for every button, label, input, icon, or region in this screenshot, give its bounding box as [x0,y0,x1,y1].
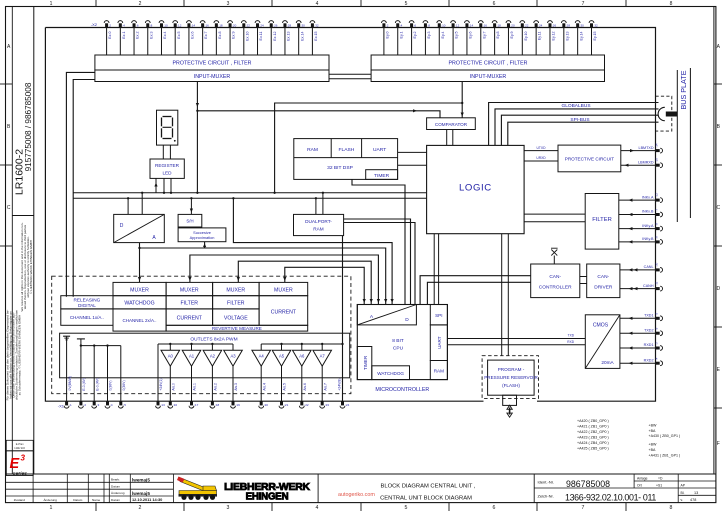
wire muxer4 to cpu (bundle line 4) [238,261,371,304]
pin -X1:24 [340,406,345,408]
svg-text:+BA: +BA [649,448,656,452]
svg-text::26: :26 [552,23,557,27]
svg-text:Ident.-Nr.: Ident.-Nr. [538,479,554,484]
svg-text:C: C [7,205,11,211]
wire LBMRXD [621,164,656,166]
seven segment display [157,110,178,145]
svg-text::22: :22 [524,23,529,27]
svg-text:Ex.1: Ex.1 [122,32,126,39]
wire rail to pin X1:5 [120,346,122,402]
svg-text:LWE 932: LWE 932 [14,446,25,450]
svg-text:GLOBALBUS: GLOBALBUS [561,103,590,109]
svg-text:Ex.15: Ex.15 [314,32,318,41]
wire bus to sample-hold [190,198,192,214]
wire uart TXD to cmos [447,338,585,340]
wire muxer3 to cpu (bundle line 3) [190,255,379,305]
svg-text::16: :16 [173,403,178,407]
svg-text:Ey.9: Ey.9 [510,32,514,39]
pin -X2:4 [118,21,123,23]
svg-text:LBMRXD: LBMRXD [638,160,654,164]
logic block U2 [427,145,524,233]
pin -X3:6 [409,21,414,23]
svg-text::3: :3 [97,403,100,407]
svg-text:D: D [405,317,409,323]
svg-text:MUXER: MUXER [274,287,293,293]
svg-text::24: :24 [260,23,265,27]
svg-text:FILTER: FILTER [592,217,612,223]
svg-text:EHINGEN: EHINGEN [246,491,289,502]
svg-text:SPI-BUS: SPI-BUS [570,117,589,123]
svg-text:=D: =D [658,476,663,480]
wire logic down to program flash (2) [507,234,509,356]
wire INKy.B [619,241,656,243]
wire TXD1 [620,317,656,319]
globalbus wire 2 [495,109,659,145]
wire A3 to pin [232,366,234,401]
svg-text:12.10.2011 14:30: 12.10.2011 14:30 [132,497,162,502]
pin -X1:17 [189,406,194,408]
wire dualport to cpu (2) [344,223,415,305]
bus plate bar [676,70,678,222]
svg-text:RELEASING: RELEASING [73,298,100,303]
wire rail down to pin X1:13 [157,344,159,401]
wires can-controller to can-driver [580,276,587,278]
svg-text:Approximation: Approximation [190,235,215,240]
filter box (incremental inputs) [585,194,619,250]
svg-text:2: 2 [139,505,142,511]
wire A2 to pin [211,366,213,401]
svg-text:+A423 ( ZB3_GP0 ): +A423 ( ZB3_GP0 ) [577,435,609,439]
svg-text:TIMER: TIMER [363,355,368,370]
svg-text:series: series [13,471,27,477]
svg-text:+A420 ( ZB0_GP0 ): +A420 ( ZB0_GP0 ) [577,419,609,423]
svg-text:MICROCONTROLLER: MICROCONTROLLER [375,387,429,393]
spi-bus wire 2 [508,122,659,145]
svg-text:INKy.B: INKy.B [642,237,654,241]
svg-text:20mA: 20mA [601,360,614,365]
svg-text:(FLASH): (FLASH) [502,383,520,388]
svg-text:PRESSURE RESERVOIR: PRESSURE RESERVOIR [484,375,538,380]
svg-text:Ey.10: Ey.10 [524,32,528,41]
pin -X3:20 [506,21,511,23]
svg-text::20: :20 [264,403,269,407]
svg-text:+A430 ( ZB0_GP1 ): +A430 ( ZB0_GP1 ) [649,434,681,438]
svg-text:CENTRAL UNIT BLOCK DIAGRAM: CENTRAL UNIT BLOCK DIAGRAM [380,495,472,501]
svg-text:32 BIT DSP: 32 BIT DSP [327,165,353,171]
svg-text:S/H: S/H [186,219,193,224]
pin -X2:18 [214,21,219,23]
wire D/A output down into muxer channel 2 [139,243,141,283]
muxer col2 [113,282,166,295]
pin -X2:32 [310,21,315,23]
svg-text:Ex.3: Ex.3 [149,32,153,39]
svg-text::5: :5 [123,403,126,407]
pin -X2:26 [269,21,274,23]
pin -X2:6 [132,21,137,23]
cmos 20mA driver [585,315,620,369]
microcontroller block [357,305,447,380]
svg-text::19: :19 [236,403,241,407]
svg-text:4: 4 [316,1,319,7]
svg-text:A6: A6 [299,354,305,359]
svg-text:Ex.0: Ex.0 [108,32,112,39]
svg-text:Ey.5: Ey.5 [455,32,459,39]
svg-text:Ey.15: Ey.15 [593,32,597,41]
register led box [150,159,184,178]
svg-text::2: :2 [109,23,112,27]
pin -X2:22 [241,21,246,23]
svg-text:-X1: -X1 [58,404,65,409]
svg-text:4: 4 [316,505,319,511]
pin -X1:21 [279,406,284,408]
svg-text::23: :23 [325,403,330,407]
pin -X1:13 [156,406,161,408]
wire LBMTXD [621,150,656,152]
svg-text::26: :26 [273,23,278,27]
wire muxer5 to cpu (bundle line 5) [285,267,364,304]
wires dsp to logic [398,151,427,153]
wires register to data bus [155,178,157,192]
svg-text::6: :6 [136,23,139,27]
svg-text:D: D [120,223,124,229]
wire logic URXD [524,160,558,162]
outlet rail A0-A3 [158,343,233,345]
svg-text::20: :20 [232,23,237,27]
svg-text:FILTER: FILTER [227,301,245,307]
svg-text:A7: A7 [320,354,326,359]
pin TXD2 [656,332,660,335]
output driver A4 [260,344,262,350]
svg-text:+BW: +BW [649,443,657,447]
svg-text:Änderung: Änderung [111,491,125,495]
globalbus wire 1 [489,103,659,146]
svg-text:INPUT-MUXER: INPUT-MUXER [194,74,231,80]
pin -X3:10 [437,21,442,23]
cpu A/D converter sub-box [357,305,416,325]
data bus line 1 [73,192,426,194]
pin RXD1 [656,347,660,350]
svg-text:© LIEBHERR-WERK EHINGEN GMBH: © LIEBHERR-WERK EHINGEN GMBH [29,240,33,294]
svg-text::13: :13 [161,403,166,407]
pin CANL [656,268,660,271]
frame column ticks bottom [95,503,97,511]
svg-text:lwemaj5: lwemaj5 [132,491,150,496]
svg-text:Zustand: Zustand [14,498,25,502]
output driver A3 [232,344,234,350]
svg-text::22: :22 [246,23,251,27]
svg-text:-X2: -X2 [91,22,98,27]
pin TXD1 [656,317,660,320]
pin -X2:30 [296,21,301,23]
svg-text:v.: v. [681,498,683,502]
pin -X3:32 [589,21,594,23]
svg-text::4: :4 [110,403,113,407]
svg-text:INKx.A: INKx.A [642,195,654,199]
svg-text::24: :24 [345,403,350,407]
revertive measure bar [166,325,308,331]
can termination symbol [553,256,555,265]
svg-text:Datum: Datum [111,485,121,489]
pin -X3:14 [465,21,470,23]
svg-text:5: 5 [405,1,408,7]
svg-text:Ex.11: Ex.11 [259,32,263,41]
pin -X1:1 [64,406,69,408]
svg-text:A0: A0 [168,354,174,359]
pin INKy.B [656,240,660,243]
pin LBMTXD [656,149,660,152]
svg-text:Änderung: Änderung [43,498,57,502]
wire RXD2 [620,362,656,364]
pin INKx.B [656,213,660,216]
releasing digital box [61,296,113,309]
svg-text:RXD1: RXD1 [644,343,654,347]
protective circuit filter box (right group) [371,55,604,70]
svg-text::16: :16 [483,23,488,27]
pin -X3:22 [520,21,525,23]
E3 series logo [6,451,33,476]
output driver A1 [191,344,193,350]
svg-text:CURRENT: CURRENT [177,315,203,321]
pin -X1:4 [105,406,110,408]
supply T bar [77,338,85,340]
program pressure reservoir dashed box [482,356,538,399]
wire D/A line to cpu (bundle line 2) [140,248,386,305]
wire logic UTXD [524,150,558,152]
svg-text:Ey.6: Ey.6 [469,32,473,39]
svg-text::16: :16 [205,23,210,27]
wire data bus up to comparator [275,103,462,193]
svg-text:LOGIC: LOGIC [459,183,492,194]
svg-text:DRIVER: DRIVER [594,285,613,291]
svg-text:8: 8 [670,1,673,7]
svg-text:PROGRAM -: PROGRAM - [498,367,525,372]
wire supply bar to pin X1:2 [80,339,82,401]
pin -X1:19 [231,406,236,408]
svg-text:Ex.8: Ex.8 [218,32,222,39]
svg-text:F: F [717,441,720,447]
svg-text:INKx.B: INKx.B [642,210,654,214]
svg-text:FLASH: FLASH [339,147,355,153]
wire bus to D/A converter (right) [141,193,143,215]
svg-text::32: :32 [594,23,599,27]
svg-text:RXD: RXD [567,340,574,344]
wire muxer1 to comparator [197,111,440,118]
svg-text:478: 478 [690,498,696,502]
svg-text::12: :12 [455,23,460,27]
svg-text:lwemaj5: lwemaj5 [132,477,150,482]
svg-text:REGISTER: REGISTER [155,163,180,168]
svg-text::14: :14 [191,23,196,27]
pin -X3:16 [478,21,483,23]
svg-text::28: :28 [287,23,292,27]
svg-text::12: :12 [655,193,659,197]
svg-text::4: :4 [122,23,125,27]
spi-bus wire 1 [501,115,658,145]
svg-text:5: 5 [405,505,408,511]
muxer col4 [213,282,260,295]
pin -X2:24 [255,21,260,23]
svg-text:Anlage: Anlage [637,476,648,480]
can-driver [587,264,620,298]
svg-text:2: 2 [139,1,142,7]
svg-text:TXD1: TXD1 [644,314,653,318]
wire uart RXD to cmos [447,344,585,346]
svg-text::1: :1 [69,403,72,407]
pin -X3:2 [382,21,387,23]
wire RXD1 [620,347,656,349]
svg-text:+S1: +S1 [656,484,662,488]
svg-text:UART: UART [373,147,386,153]
dashed measure section box [52,276,351,394]
svg-text::18: :18 [497,23,502,27]
svg-text::12: :12 [177,23,182,27]
svg-text:WATCHDOG: WATCHDOG [124,301,154,307]
svg-text:A5: A5 [279,354,285,359]
svg-text:MUXER: MUXER [130,287,149,293]
svg-text:CAN-: CAN- [597,274,609,280]
small note box above E3 logo [6,440,33,451]
pin -X1:22 [299,406,304,408]
svg-text:Name: Name [92,498,101,502]
pin -X1:23 [320,406,325,408]
can-controller [531,264,580,298]
wire bus to D/A converter (left) [127,198,129,214]
input-muxer box (left group) [95,70,329,82]
svg-text:Ey.14: Ey.14 [579,32,583,41]
svg-text:CPU: CPU [393,346,404,352]
output driver A6 [301,344,303,350]
svg-text:RXD2: RXD2 [644,358,654,362]
muxer col3 [166,282,213,295]
wire A0 to pin [169,366,171,401]
pin LBMRXD [656,164,660,167]
svg-text:Ais.0: Ais.0 [172,383,176,391]
svg-text::20: :20 [510,23,515,27]
dualport ram [294,214,344,235]
svg-text::28: :28 [566,23,571,27]
svg-text:Ais.2: Ais.2 [214,383,218,391]
wire linking both input-muxers [329,73,371,75]
pin -X1:18 [210,406,215,408]
program pressure reservoir inner box [488,360,534,395]
svg-text:CANL: CANL [644,265,654,269]
svg-text:TXD: TXD [568,334,575,338]
svg-text:8: 8 [670,505,673,511]
wire cpu to can-controller (2) [427,282,530,304]
wire dualport down to outlet rail / pin 24 [342,236,344,402]
pin -X3:8 [423,21,428,23]
pin -X3:12 [451,21,456,23]
current box col3 [166,309,213,325]
input-muxer box (right group) [371,70,604,82]
svg-text:Ort: Ort [637,484,642,488]
svg-text:WATCHDOG: WATCHDOG [377,371,404,376]
svg-text:DUALPORT-: DUALPORT- [305,219,332,224]
svg-text:Ex.12: Ex.12 [273,32,277,41]
svg-text:OUTLETS 8x2A PWM: OUTLETS 8x2A PWM [190,337,237,343]
voltage box col4 [213,309,260,325]
svg-text:Ex.5: Ex.5 [177,32,181,39]
pin -X2:28 [283,21,288,23]
wire INKx.A [619,199,656,201]
svg-text:PROTECTIVE CIRCUIT , FILT: PROTECTIVE CIRCUIT , FILTER [449,61,528,67]
svg-text:Ey.8: Ey.8 [496,32,500,39]
wires display to register [162,145,164,159]
svg-text:UTXD: UTXD [537,146,547,150]
svg-text:0(36V): 0(36V) [109,380,113,390]
svg-text:D: D [716,286,720,292]
svg-text:Ey.2: Ey.2 [413,32,417,39]
32 bit dsp block [294,139,398,180]
svg-text:CURRENT: CURRENT [271,309,297,315]
pin -X2:20 [228,21,233,23]
wire input-muxer1 center down to data bus [196,82,198,193]
svg-text:Ex.2: Ex.2 [136,32,140,39]
data bus line 2 [73,197,426,199]
svg-text:915775008 / 986785008: 915775008 / 986785008 [24,82,33,171]
svg-text:3: 3 [227,1,230,7]
svg-text:CMOS: CMOS [593,323,609,329]
svg-text:LBMTXD: LBMTXD [639,146,654,150]
svg-text:RAM: RAM [313,227,324,232]
D/A converter [114,214,165,242]
wire rail to pin X1:4 [107,346,109,402]
wire S/H result to cpu (bundle line 1) [233,198,392,304]
title block top line [6,473,716,475]
svg-text:BLOCK DIAGRAM CENTRAL UNIT: BLOCK DIAGRAM CENTRAL UNIT , [380,484,475,490]
pin -X1:20 [259,406,264,408]
wire input-muxer1 left to releasing digital (outer) [66,72,95,296]
svg-text:+24V(8): +24V(8) [338,378,342,390]
wire CANH [620,288,656,290]
svg-text:+A425 ( ZB5_GP0 ): +A425 ( ZB5_GP0 ) [577,446,609,450]
svg-text:+24V(1): +24V(1) [159,378,163,390]
frame column ticks top [95,0,97,7]
timer cell (rotated) [357,347,372,380]
svg-text:PROTECTIVE CIRCUIT: PROTECTIVE CIRCUIT [565,156,614,161]
pin CANH [656,287,660,290]
svg-text:RAM: RAM [307,147,318,153]
svg-text:13: 13 [694,491,698,495]
pin -X2:16 [200,21,205,23]
svg-text:C: C [716,205,720,211]
svg-text:Ex.4: Ex.4 [163,32,167,39]
svg-text:SPI: SPI [435,313,442,318]
divider line under designation block [12,215,34,217]
succesive approximation box [178,228,226,242]
timer sub-box of dsp [366,170,398,180]
svg-text::4: :4 [400,23,403,27]
channel 1x box [61,309,113,325]
frame letter-band line left [11,7,13,475]
output driver A2 [211,344,213,350]
pin -X1:16 [168,406,173,408]
svg-text::17: :17 [194,403,199,407]
bus plate connector socket [658,107,665,120]
svg-text:Ex.9: Ex.9 [232,32,236,39]
pin -X1:3 [92,406,97,408]
svg-text:7: 7 [582,1,585,7]
svg-text:Ais.6: Ais.6 [303,383,307,391]
bus plate connector dashed box [656,96,672,131]
wire ground to pin X1:1 [66,336,68,401]
sample and hold S/H [178,214,202,227]
svg-text:986785008: 986785008 [566,479,610,489]
svg-text::24: :24 [538,23,543,27]
watchdog cell [372,366,410,380]
pin RXD2 [656,362,660,365]
svg-text::10: :10 [655,262,659,266]
